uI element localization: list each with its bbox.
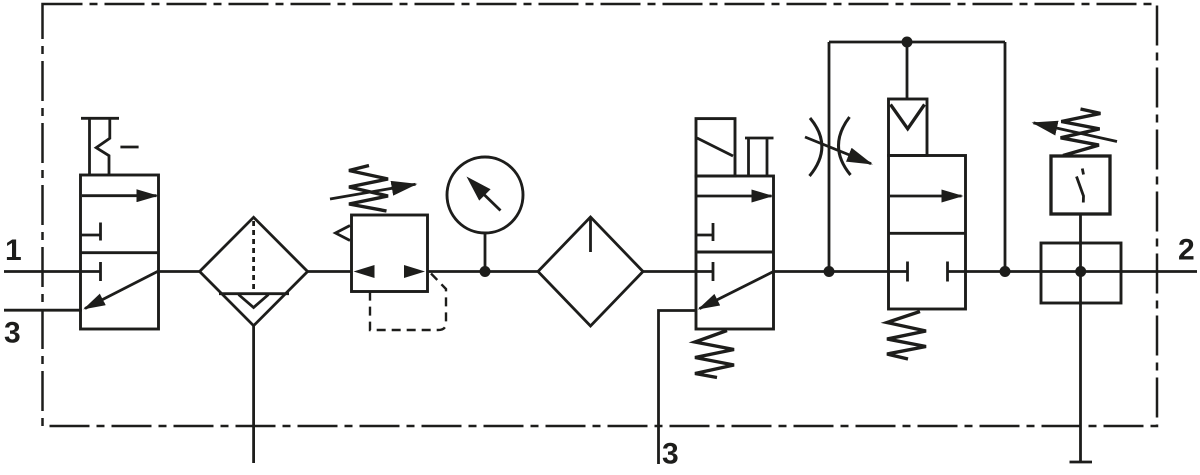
svg-text:3: 3: [662, 438, 679, 471]
svg-text:2: 2: [1178, 234, 1195, 267]
svg-text:1: 1: [5, 234, 22, 267]
svg-text:3: 3: [4, 317, 21, 350]
